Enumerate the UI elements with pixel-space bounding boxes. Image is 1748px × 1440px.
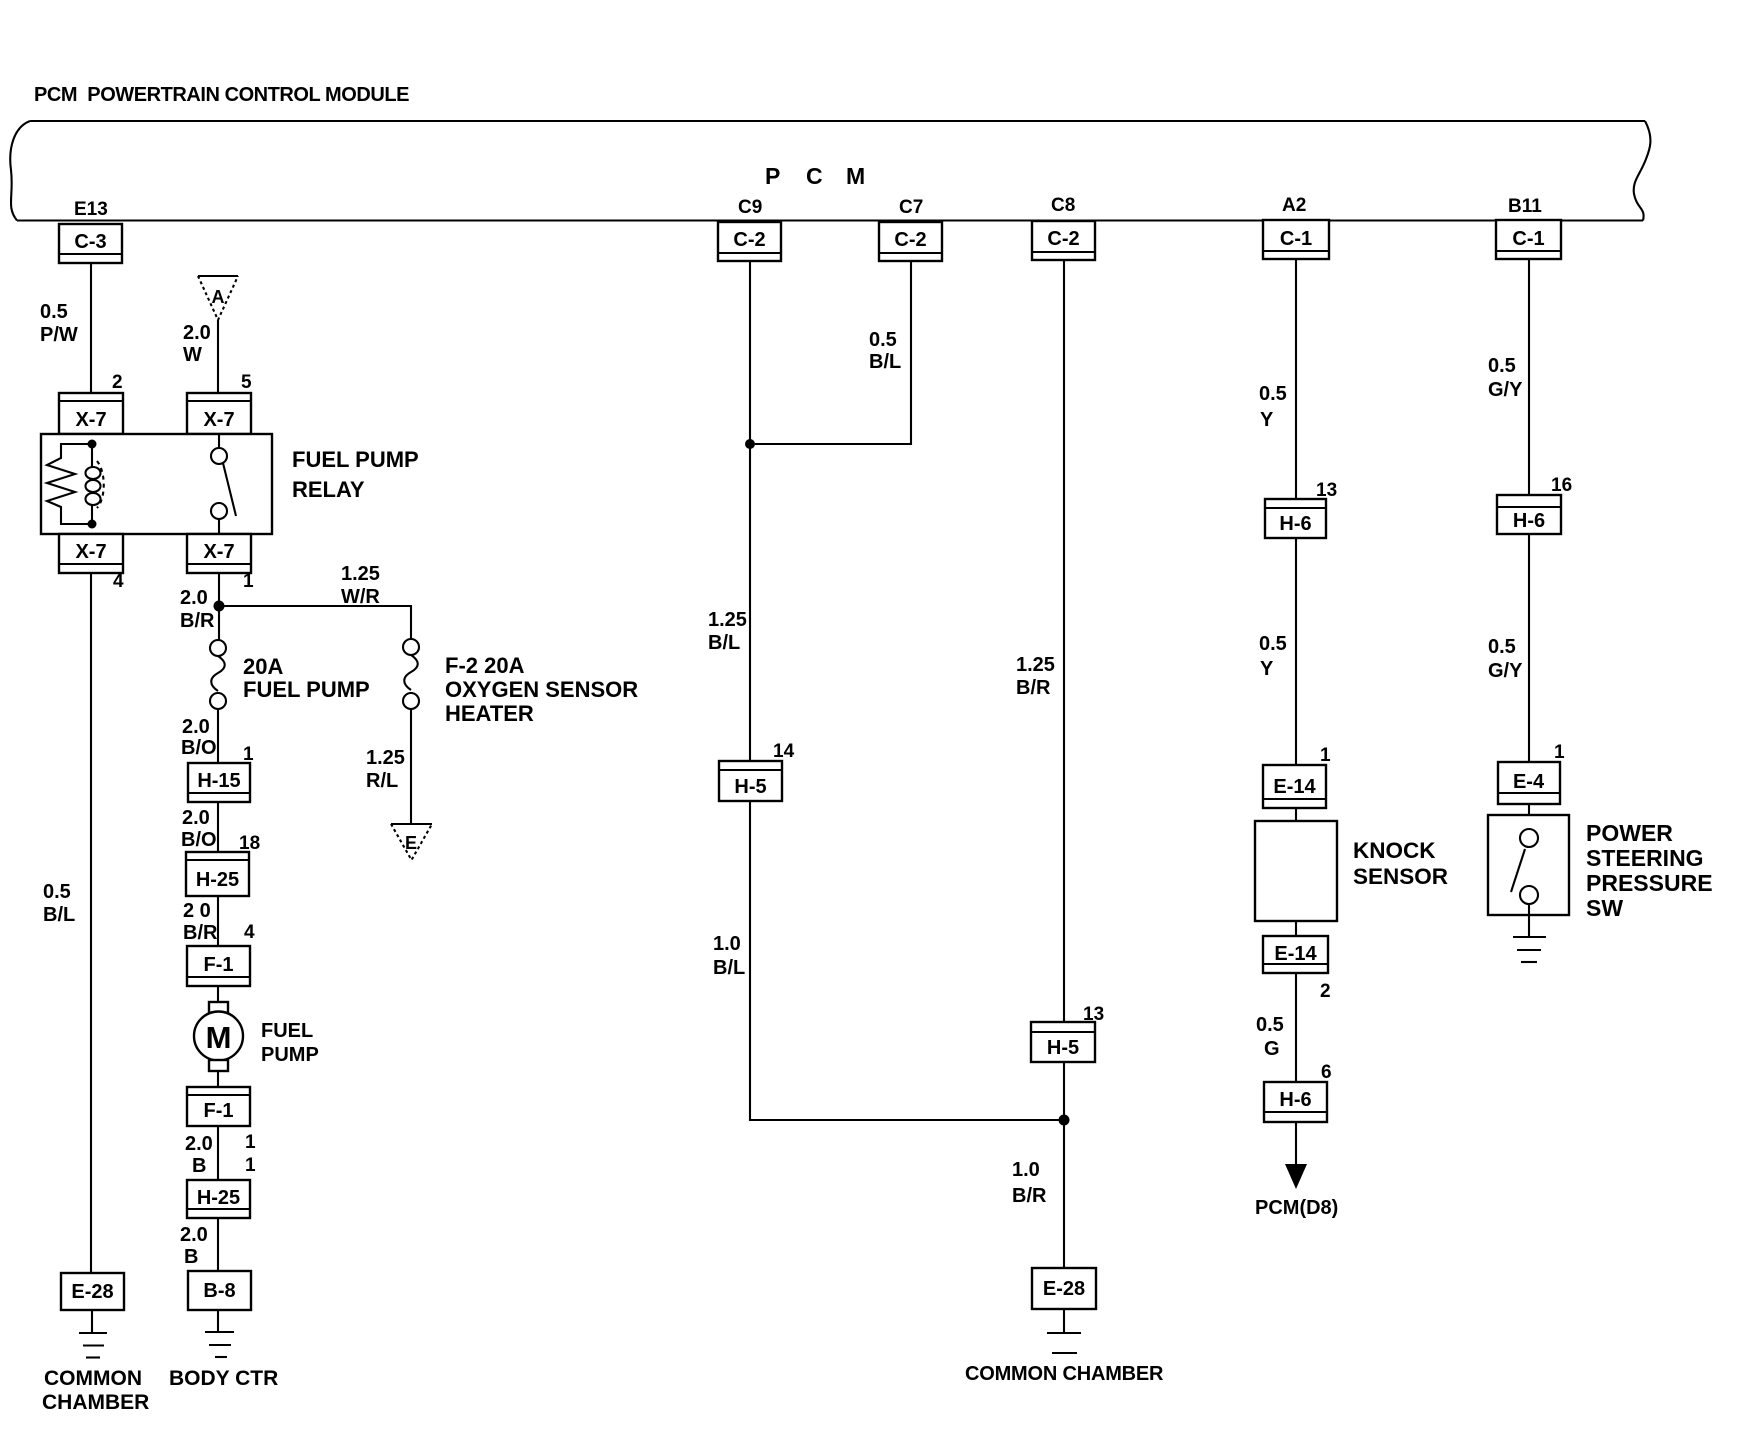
svg-text:1.25: 1.25: [341, 563, 380, 585]
svg-text:M: M: [206, 1020, 232, 1055]
wire H-15 to H-25: [217, 802, 219, 852]
svg-text:C8: C8: [1051, 195, 1075, 216]
wire label 0.5 P/W: [40, 301, 78, 346]
pin 1 upper: [245, 1132, 256, 1153]
connector X-7 pin1 lower right: [187, 534, 251, 573]
wire E-14 to knock sensor: [1295, 808, 1297, 821]
wire label 0.5 Y: [1259, 383, 1287, 431]
svg-text:W: W: [183, 344, 202, 366]
connector F-1 (4): [187, 946, 250, 986]
wire knock sensor to E-14: [1295, 921, 1297, 936]
svg-text:H-6: H-6: [1513, 510, 1545, 532]
svg-text:2: 2: [112, 372, 123, 393]
svg-text:FUEL PUMP: FUEL PUMP: [243, 677, 370, 702]
node B11 pin label: [1508, 196, 1542, 217]
wire E-4 to switch: [1528, 804, 1530, 829]
svg-text:2.0: 2.0: [182, 807, 210, 829]
svg-text:BODY CTR: BODY CTR: [169, 1367, 278, 1390]
svg-text:F-1: F-1: [204, 1100, 234, 1122]
svg-text:B/R: B/R: [1016, 677, 1051, 699]
wire H-5 down and right to C8 junction: [750, 801, 1059, 1120]
connector E-28 (C8): [1032, 1268, 1096, 1309]
svg-text:E-4: E-4: [1513, 771, 1545, 793]
svg-text:1: 1: [245, 1132, 256, 1153]
wire pin4 down to E-28: [90, 573, 92, 1273]
svg-text:2.0: 2.0: [183, 322, 211, 344]
svg-text:E-28: E-28: [71, 1281, 113, 1303]
svg-text:4: 4: [244, 922, 255, 943]
svg-text:RELAY: RELAY: [292, 477, 365, 502]
connector H-25 (18): [186, 852, 249, 896]
svg-text:C7: C7: [899, 197, 923, 218]
wire E-14 to H-6 lower: [1295, 973, 1297, 1082]
connector H-5 (14): [719, 761, 782, 801]
svg-text:1.0: 1.0: [713, 933, 741, 955]
pin 4: [113, 571, 124, 592]
ground body ctr: [205, 1310, 234, 1357]
wire label 1.25 R/L: [366, 747, 405, 792]
svg-text:20A: 20A: [243, 654, 283, 679]
wire label 0.5 Y second: [1259, 633, 1287, 680]
connector B-8: [188, 1271, 251, 1310]
svg-text:0.5: 0.5: [1488, 636, 1516, 658]
fuse F-2 20A oxygen sensor heater: [403, 639, 419, 709]
svg-text:B/R: B/R: [1012, 1185, 1047, 1207]
PCM module band: [10, 121, 1650, 221]
connector E-28 (left): [61, 1273, 124, 1310]
svg-text:PCM POWERTRAIN CONTROL MODULE: PCM POWERTRAIN CONTROL MODULE: [34, 84, 409, 106]
wire E13 to relay coil: [90, 263, 92, 393]
wire label 2 0 B/R: [183, 900, 218, 944]
pin 13 H-6: [1316, 480, 1337, 501]
connector C-1 (A2): [1263, 220, 1329, 259]
knock sensor: [1255, 821, 1337, 921]
svg-text:SW: SW: [1586, 895, 1623, 921]
svg-text:F-1: F-1: [204, 954, 234, 976]
wire H-25 to F-1: [217, 896, 219, 946]
pin 14: [773, 741, 795, 762]
svg-text:2.0: 2.0: [180, 587, 208, 609]
svg-text:1.0: 1.0: [1012, 1159, 1040, 1181]
label FUEL PUMP motor: [261, 1020, 319, 1066]
ground common chamber left: [79, 1310, 107, 1358]
pin 5: [241, 372, 252, 393]
label KNOCK SENSOR: [1353, 838, 1448, 889]
connector H-15: [188, 763, 250, 802]
svg-text:X-7: X-7: [203, 541, 234, 563]
wire label 1.0 B/R: [1012, 1159, 1047, 1207]
svg-text:Y: Y: [1260, 658, 1274, 680]
svg-text:H-5: H-5: [734, 776, 766, 798]
pin 13 H-5: [1083, 1004, 1104, 1025]
svg-text:C-2: C-2: [733, 229, 765, 251]
svg-text:0.5: 0.5: [40, 301, 68, 323]
connector H-5 (13): [1031, 1022, 1095, 1062]
pin 18: [239, 833, 260, 854]
label BODY CTR: [169, 1367, 278, 1390]
wire label 0.5 G/Y second: [1488, 636, 1523, 682]
svg-text:B11: B11: [1508, 196, 1542, 217]
svg-text:B-8: B-8: [203, 1280, 235, 1302]
connector C-2 (C7): [879, 222, 942, 261]
wire C7 to junction: [755, 261, 911, 444]
svg-text:2: 2: [1320, 981, 1331, 1002]
svg-text:0.5: 0.5: [1256, 1014, 1284, 1036]
svg-text:R/L: R/L: [366, 770, 398, 792]
svg-text:POWER: POWER: [1586, 820, 1673, 846]
svg-text:W/R: W/R: [341, 586, 380, 608]
svg-text:14: 14: [773, 741, 795, 762]
pin 1 E-4: [1554, 742, 1565, 763]
svg-text:1: 1: [245, 1155, 256, 1176]
power feed triangle A: [198, 276, 238, 320]
svg-text:G: G: [1264, 1038, 1280, 1060]
wire arrow to PCM(D8): [1285, 1122, 1307, 1189]
connector X-7 pin2 upper left: [59, 393, 123, 434]
svg-text:FUEL: FUEL: [261, 1020, 313, 1042]
svg-text:1.25: 1.25: [708, 609, 747, 631]
svg-text:C-3: C-3: [74, 231, 106, 253]
svg-text:F-2 20A: F-2 20A: [445, 653, 525, 678]
wire label 2.0 B/O second: [181, 807, 217, 851]
junction node fuel pump feed: [214, 601, 225, 612]
svg-text:6: 6: [1321, 1062, 1332, 1083]
svg-text:X-7: X-7: [203, 409, 234, 431]
svg-text:X-7: X-7: [75, 409, 106, 431]
svg-text:E-14: E-14: [1274, 943, 1317, 965]
svg-text:2 0: 2 0: [183, 900, 211, 922]
label PCM(D8): [1255, 1197, 1338, 1219]
ground common chamber right: [1047, 1309, 1081, 1353]
wire label 0.5 G: [1256, 1014, 1284, 1060]
svg-text:PUMP: PUMP: [261, 1044, 319, 1066]
wire C9 down to H-5: [749, 261, 751, 761]
svg-text:C-1: C-1: [1512, 228, 1544, 250]
wire H-25 to B-8: [217, 1218, 219, 1271]
wire label 2.0 B: [185, 1133, 213, 1177]
svg-text:COMMON CHAMBER: COMMON CHAMBER: [965, 1363, 1164, 1385]
svg-text:B/L: B/L: [708, 632, 740, 654]
svg-text:B/L: B/L: [869, 351, 901, 373]
svg-text:E: E: [405, 833, 417, 853]
svg-text:1.25: 1.25: [1016, 654, 1055, 676]
label 20A FUEL PUMP: [243, 654, 370, 702]
wire H-6 to E-4: [1528, 534, 1530, 762]
wire branch to oxygen sensor heater fuse: [219, 606, 411, 639]
connector E-14 (1): [1263, 765, 1326, 808]
connector X-7 pin5 upper right: [187, 393, 251, 434]
svg-text:2.0: 2.0: [182, 716, 210, 738]
junction node C8/C9: [1059, 1115, 1070, 1126]
ground triangle E: [391, 824, 432, 860]
wire label 0.5 B/L (C7): [869, 329, 901, 373]
node E13 pin label: [74, 199, 108, 220]
svg-text:H-5: H-5: [1047, 1037, 1079, 1059]
relay coil winding: [91, 444, 93, 467]
svg-text:1: 1: [243, 571, 254, 592]
svg-text:0.5: 0.5: [1259, 633, 1287, 655]
wire F-1 to H-25 lower: [217, 1126, 219, 1180]
connector H-6 (6): [1264, 1082, 1327, 1122]
power steering pressure switch S1: [1488, 815, 1569, 915]
wire label 0.5 B/L: [43, 881, 75, 926]
wire A to relay switch: [217, 320, 219, 393]
svg-text:B/O: B/O: [181, 829, 217, 851]
svg-text:E-14: E-14: [1273, 776, 1316, 798]
svg-text:P: P: [765, 163, 780, 189]
fuse 20A fuel pump: [210, 640, 226, 709]
svg-text:Y: Y: [1260, 409, 1274, 431]
svg-text:SENSOR: SENSOR: [1353, 864, 1448, 889]
svg-text:E13: E13: [74, 199, 108, 220]
svg-text:H-15: H-15: [197, 770, 240, 792]
wire label 2.0 W: [183, 322, 211, 366]
svg-text:4: 4: [113, 571, 124, 592]
wire label 1.25 B/L: [708, 609, 747, 654]
pin 1 E-14: [1320, 745, 1331, 766]
pin 1 lower: [245, 1155, 256, 1176]
svg-text:B/L: B/L: [713, 957, 745, 979]
svg-text:0.5: 0.5: [1488, 355, 1516, 377]
connector E-14 (2): [1263, 936, 1328, 973]
relay coil node bottom: [88, 520, 97, 529]
wire H-5 to E-28: [1063, 1062, 1065, 1268]
junction node C9/C7: [745, 439, 755, 449]
svg-text:COMMON: COMMON: [44, 1367, 142, 1390]
pin 6: [1321, 1062, 1332, 1083]
wire C8 down to H-5: [1063, 260, 1065, 1022]
connector H-6 (13): [1265, 499, 1326, 538]
svg-text:H-25: H-25: [197, 1187, 240, 1209]
svg-text:B/R: B/R: [180, 610, 215, 632]
svg-text:B/O: B/O: [181, 737, 217, 759]
pin 2: [112, 372, 123, 393]
svg-text:1: 1: [1320, 745, 1331, 766]
connector C-1 (B11): [1496, 220, 1561, 259]
svg-text:16: 16: [1551, 475, 1572, 496]
wire label 1.25 B/R: [1016, 654, 1055, 699]
svg-text:1: 1: [1554, 742, 1565, 763]
pin 2 E-14: [1320, 981, 1331, 1002]
node C9 pin label: [738, 197, 762, 218]
connector H-6 (16): [1497, 495, 1561, 534]
wire F-1 to motor: [217, 986, 219, 1002]
connector F-1 lower: [187, 1087, 250, 1126]
svg-text:1.25: 1.25: [366, 747, 405, 769]
relay switch blade: [223, 463, 236, 516]
svg-text:C-2: C-2: [894, 229, 926, 251]
wire label 2.0 B/R: [180, 587, 215, 632]
svg-text:X-7: X-7: [75, 541, 106, 563]
svg-text:B/L: B/L: [43, 904, 75, 926]
label POWER STEERING PRESSURE SW: [1586, 820, 1713, 921]
svg-text:HEATER: HEATER: [445, 701, 534, 726]
svg-text:B: B: [184, 1246, 198, 1268]
svg-text:5: 5: [241, 372, 252, 393]
connector C-2 (C9): [718, 222, 781, 261]
pin 1 H-15: [243, 744, 254, 765]
svg-text:0.5: 0.5: [1259, 383, 1287, 405]
svg-text:C-1: C-1: [1280, 228, 1312, 250]
svg-text:H-25: H-25: [196, 869, 239, 891]
svg-text:G/Y: G/Y: [1488, 379, 1523, 401]
connector E-4: [1498, 762, 1560, 804]
node C7 pin label: [899, 197, 923, 218]
fuel pump relay U1: [41, 434, 272, 534]
node A2 pin label: [1282, 195, 1306, 216]
wire fuse to H-15: [217, 709, 219, 763]
connector C-3 (E13): [59, 224, 122, 263]
wire label 1.25 W/R: [341, 563, 380, 608]
wire motor to F-1 lower: [217, 1071, 219, 1087]
pin 16: [1551, 475, 1572, 496]
svg-text:2.0: 2.0: [185, 1133, 213, 1155]
svg-text:FUEL PUMP: FUEL PUMP: [292, 447, 419, 472]
wire label 2.0 B second: [180, 1224, 208, 1268]
wire A2 to H-6: [1295, 259, 1297, 499]
svg-text:P/W: P/W: [40, 324, 78, 346]
svg-text:A: A: [212, 287, 225, 307]
relay switch contact top: [211, 448, 227, 464]
wire fuse to triangle E: [410, 709, 412, 824]
svg-text:PRESSURE: PRESSURE: [1586, 870, 1713, 896]
pin 1: [243, 571, 254, 592]
svg-text:E-28: E-28: [1043, 1278, 1085, 1300]
wire pin1 to junction: [218, 573, 220, 640]
wire H-6 to E-14: [1295, 538, 1297, 765]
svg-text:CHAMBER: CHAMBER: [42, 1391, 149, 1414]
wire B11 to H-6: [1528, 259, 1530, 495]
svg-text:KNOCK: KNOCK: [1353, 838, 1436, 863]
ground power steering switch: [1513, 915, 1546, 962]
wire label 0.5 G/Y: [1488, 355, 1523, 401]
wire label 2.0 B/O: [181, 716, 217, 759]
connector X-7 pin4 lower left: [59, 534, 123, 573]
pin 4 F-1: [244, 922, 255, 943]
svg-text:C-2: C-2: [1047, 228, 1079, 250]
connector H-25 lower: [187, 1180, 250, 1218]
relay switch contact bottom: [211, 503, 227, 519]
svg-text:OXYGEN SENSOR: OXYGEN SENSOR: [445, 677, 638, 702]
svg-text:2.0: 2.0: [180, 1224, 208, 1246]
relay coil node top: [88, 440, 97, 449]
label COMMON CHAMBER right: [965, 1363, 1164, 1385]
svg-text:M: M: [846, 163, 865, 189]
svg-text:0.5: 0.5: [43, 881, 71, 903]
svg-text:PCM(D8): PCM(D8): [1255, 1197, 1338, 1219]
wire label 1.0 B/L: [713, 933, 745, 979]
fuel pump motor M1: [194, 1002, 243, 1071]
label COMMON CHAMBER left: [42, 1367, 149, 1414]
svg-text:G/Y: G/Y: [1488, 660, 1523, 682]
svg-text:STEERING: STEERING: [1586, 845, 1704, 871]
svg-text:B/R: B/R: [183, 922, 218, 944]
relay resistor branch: [47, 444, 92, 524]
node C8 pin label: [1051, 195, 1075, 216]
label F-2 20A OXYGEN SENSOR HEATER: [445, 653, 638, 726]
svg-text:H-6: H-6: [1279, 1089, 1311, 1111]
connector C-2 (C8): [1032, 221, 1095, 260]
svg-text:H-6: H-6: [1279, 513, 1311, 535]
svg-text:0.5: 0.5: [869, 329, 897, 351]
svg-text:C: C: [806, 163, 823, 189]
label FUEL PUMP RELAY: [292, 447, 419, 502]
svg-text:C9: C9: [738, 197, 762, 218]
svg-text:B: B: [192, 1155, 206, 1177]
svg-text:A2: A2: [1282, 195, 1306, 216]
title PCM POWERTRAIN CONTROL MODULE: [34, 84, 409, 106]
